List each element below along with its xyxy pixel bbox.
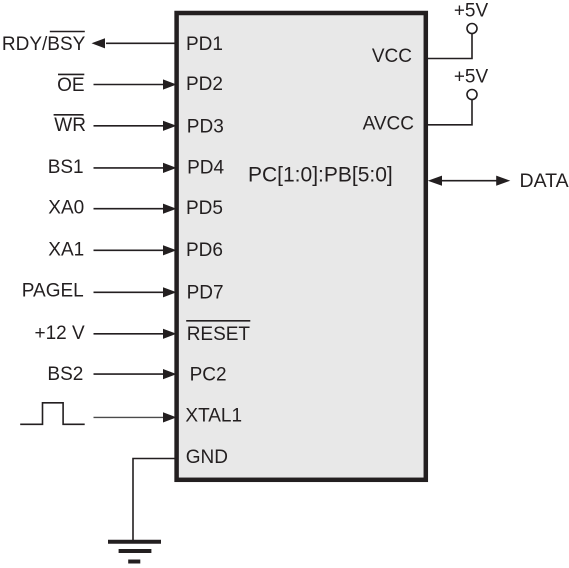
svg-text:AVCC: AVCC [363, 113, 414, 134]
signal label XA0 [48, 198, 84, 219]
pin PD7 label [187, 283, 224, 304]
pin GND label [186, 447, 228, 468]
wire GND to ground [133, 459, 176, 541]
svg-text:PD5: PD5 [186, 198, 223, 219]
wire DATA bidirectional arrow [428, 176, 511, 186]
pin RESET label with overline [186, 321, 250, 345]
pin PD3 label [187, 116, 224, 137]
pin XTAL1 label [185, 405, 242, 426]
svg-text:BS2: BS2 [47, 364, 83, 385]
port label PC[1:0]:PB[5:0] [248, 164, 393, 187]
svg-text:PC[1:0]:PB[5:0]: PC[1:0]:PB[5:0] [248, 164, 393, 187]
pin VCC label [372, 46, 412, 67]
pin AVCC label [363, 113, 414, 134]
wire PAGEL input arrow to PD7 [94, 287, 177, 297]
svg-text:WR: WR [54, 115, 86, 136]
svg-text:OE: OE [57, 75, 84, 96]
supply terminal circle AVCC [467, 90, 477, 100]
pin PC2 label [190, 365, 227, 386]
svg-text:XTAL1: XTAL1 [185, 405, 242, 426]
wire OE input arrow to PD2 [94, 79, 177, 89]
signal label BS2 [47, 364, 83, 385]
wire XA0 input arrow to PD5 [94, 204, 177, 214]
wire VCC to +5V [428, 33, 472, 58]
svg-text:GND: GND [186, 447, 228, 468]
svg-text:+12 V: +12 V [35, 323, 86, 344]
IC body U1 [177, 13, 426, 480]
pin PD4 label [187, 158, 224, 179]
signal label OE [57, 74, 84, 95]
signal label WR [54, 115, 86, 136]
svg-text:XA0: XA0 [48, 198, 84, 219]
svg-text:VCC: VCC [372, 46, 412, 67]
wire RDY/BSY output arrow from PD1 [92, 38, 177, 48]
svg-text:PD3: PD3 [187, 116, 224, 137]
svg-text:+5V: +5V [454, 1, 489, 22]
wire +12 V input arrow to RESET [94, 329, 177, 339]
svg-text:BS1: BS1 [48, 157, 84, 178]
ground symbol [108, 542, 161, 562]
signal label DATA [520, 170, 569, 192]
wire BS2 input arrow to PC2 [94, 369, 177, 379]
supply +5V label for VCC [454, 1, 489, 22]
signal label +12 V [35, 323, 86, 344]
pin PD5 label [186, 198, 223, 219]
pin PD1 label [186, 34, 223, 55]
svg-text:XA1: XA1 [48, 240, 84, 261]
svg-text:PD4: PD4 [187, 158, 224, 179]
svg-text:RESET: RESET [187, 324, 251, 345]
svg-text:RDY/BSY: RDY/BSY [2, 34, 86, 55]
signal label RDY/BSY [2, 32, 86, 56]
svg-text:PD7: PD7 [187, 283, 224, 304]
wire XA1 input arrow to PD6 [94, 245, 177, 255]
pin PD2 label [186, 74, 223, 95]
clock pulse symbol [20, 403, 85, 425]
signal label PAGEL [22, 280, 84, 301]
svg-text:PC2: PC2 [190, 365, 227, 386]
wire AVCC to +5V [428, 99, 472, 125]
pin PD6 label [186, 240, 223, 261]
wire WR input arrow to PD3 [94, 121, 177, 131]
svg-text:+5V: +5V [454, 67, 489, 88]
signal label XA1 [48, 240, 84, 261]
wire BS1 input arrow to PD4 [94, 163, 177, 173]
svg-text:PD2: PD2 [186, 74, 223, 95]
wire clock input arrow to XTAL1 [94, 412, 177, 422]
svg-text:PAGEL: PAGEL [22, 280, 84, 301]
supply terminal circle VCC [467, 24, 477, 34]
svg-text:PD1: PD1 [186, 34, 223, 55]
signal label BS1 [48, 157, 84, 178]
svg-text:DATA: DATA [520, 170, 569, 192]
supply +5V label for AVCC [454, 67, 489, 88]
svg-text:PD6: PD6 [186, 240, 223, 261]
